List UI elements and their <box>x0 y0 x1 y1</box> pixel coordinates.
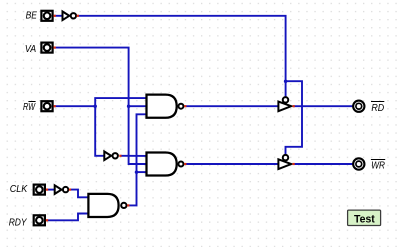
wire CLK pin to inverter U2 <box>46 189 54 191</box>
wire RD buffer to RD pin <box>293 105 353 107</box>
node U1 output dot <box>77 15 79 17</box>
node clock-term junction <box>135 170 139 174</box>
inverter U3 (RW) <box>104 152 118 161</box>
wire enable down to RD buffer bubble <box>285 81 287 96</box>
node BE pin dot <box>54 15 56 17</box>
tri-state buffer U8 (WR) <box>278 155 291 169</box>
nand gate U6 (CLK/RDY, 2-input) <box>88 194 126 217</box>
wire U4 output to RD buffer <box>186 105 279 107</box>
node U5 output dot <box>184 163 186 165</box>
input pin BE <box>41 11 52 21</box>
wire U3 out to U5 top input <box>121 155 147 157</box>
input pin VA <box>41 43 52 53</box>
wire BE pin to inverter U1 <box>54 15 62 17</box>
wire VA right + down <box>54 48 129 107</box>
svg-text:BE: BE <box>26 11 38 22</box>
node U7 output dot <box>293 105 295 107</box>
wire RW to U4 top input <box>95 98 146 106</box>
output pin RD label <box>371 101 384 114</box>
wire branch to U5 bottom input <box>137 171 147 173</box>
svg-text:RW: RW <box>23 102 36 113</box>
node RW pin dot <box>54 105 56 107</box>
svg-text:RD: RD <box>371 103 384 114</box>
wire RW down to inverter U3 <box>95 106 104 156</box>
wire VA down to U5 mid input <box>129 106 147 164</box>
inverter U2 (CLK) <box>55 185 69 194</box>
wire RW pin to junction <box>54 105 95 107</box>
node RW junction <box>93 104 97 108</box>
input pin RDY <box>34 215 45 225</box>
output pin RD <box>353 101 364 112</box>
node U6 output dot <box>127 204 129 206</box>
wire VA to U4 mid input <box>129 105 147 107</box>
wire RDY to U6 bottom input <box>46 214 88 221</box>
wire enable to WR buffer bubble <box>286 81 303 154</box>
wire BE horizontal + down to enable junction <box>78 16 286 81</box>
svg-text:CLK: CLK <box>10 184 28 195</box>
input pin RW <box>41 101 52 111</box>
svg-text:WR: WR <box>371 161 385 172</box>
node RDY pin dot <box>46 219 48 221</box>
output pin WR <box>353 158 364 169</box>
tri-state buffer U7 (RD) <box>278 97 291 111</box>
test button <box>348 210 381 225</box>
node U2 output dot <box>69 189 71 191</box>
input pin CLK <box>34 185 45 195</box>
node VA pin dot <box>54 47 56 49</box>
node CLK pin dot <box>46 189 48 191</box>
wire U6 out up to U4 bottom input <box>128 114 146 205</box>
svg-text:RDY: RDY <box>9 218 28 229</box>
inverter U1 (BE) <box>63 12 77 21</box>
nand gate U4 (RD term, 3-input) <box>147 95 184 118</box>
node enable junction <box>284 79 288 83</box>
node VA junction <box>127 104 131 108</box>
wire U5 output to WR buffer <box>186 163 279 165</box>
svg-text:VA: VA <box>25 44 37 55</box>
wire U2 out to U6 top input <box>70 190 89 198</box>
node U4 output dot <box>184 105 186 107</box>
nand gate U5 (WR term, 3-input) <box>147 152 184 175</box>
output pin WR label <box>371 159 385 172</box>
node U8 output dot <box>293 163 295 165</box>
wire WR buffer to WR pin <box>293 163 353 165</box>
svg-text:Test: Test <box>354 213 375 225</box>
node U3 output dot <box>119 155 121 157</box>
